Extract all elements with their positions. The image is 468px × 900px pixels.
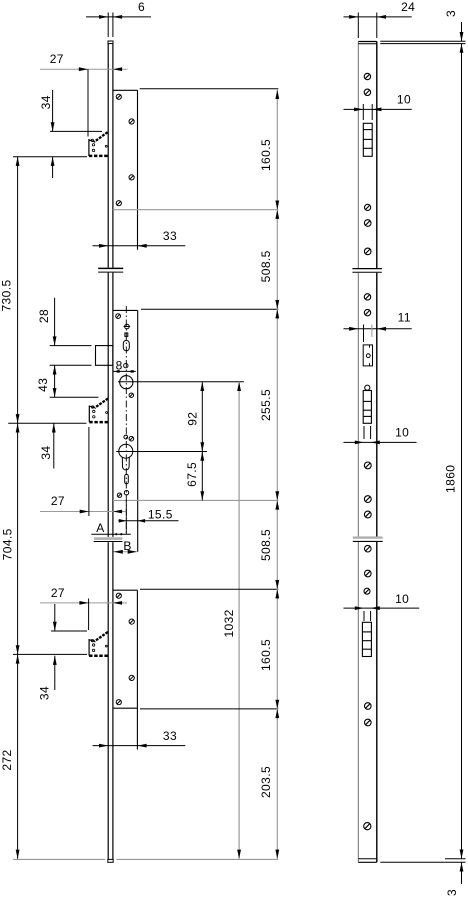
dimension 6 line [86,16,151,18]
screw S3 [129,175,134,180]
follower hub circle [120,376,133,389]
dimension 11 line [344,328,412,330]
dimension 27 mid line [40,511,127,513]
hook H1 bottom extension line [13,156,87,158]
svg-text:10: 10 [397,92,411,106]
faceplate rail (front view) [108,41,113,859]
channel profile right edge [376,42,378,863]
dimension 1860 line [461,44,463,859]
dimension 3 top stems [461,22,463,41]
hook H2 bottom extension line [8,422,86,424]
hook bolt H2 top extension line [50,396,99,398]
lower circle [124,491,128,495]
dimension 33 top line [93,245,186,247]
lock case C3 outline [113,590,137,749]
svg-text:508.5: 508.5 [259,250,273,282]
inner dim 8 line [113,370,136,372]
hook H3 bottom extension line [13,653,87,655]
dimension B line [114,551,137,553]
case C2 top extension line [141,308,278,310]
channel splice joint 1 [352,268,382,270]
svg-text:272: 272 [0,749,14,770]
dimension 24 line [344,16,412,18]
screw S7 [129,436,134,441]
svg-text:43: 43 [36,378,50,392]
small square port [125,333,128,337]
svg-text:704.5: 704.5 [1,528,15,560]
svg-text:10: 10 [395,592,409,606]
hook ladder slot T2 [363,391,371,424]
dimension 10 mid extension ticks [363,426,365,439]
svg-text:508.5: 508.5 [259,529,273,561]
channel screw holes [364,73,372,830]
channel profile left edge (side view) [357,42,359,863]
dimension 34 top stems and arrows [52,90,54,131]
dimension 28 stem and arrow [54,298,56,346]
case C1 top extension line [140,88,279,90]
cylinder retainer slot [363,345,372,366]
svg-text:1860: 1860 [444,465,458,493]
hook bolt H3 top extension line [51,630,87,632]
hook ladder slot T3 [362,622,371,656]
svg-text:15.5: 15.5 [148,508,173,522]
dimension 1032 line [238,382,240,859]
rail top end cap [108,41,113,44]
dimension 15.5 line [118,520,178,522]
lock case C1 [113,90,138,249]
svg-text:6: 6 [138,0,145,14]
svg-text:34: 34 [38,686,52,700]
screw S2 [129,119,134,124]
svg-text:33: 33 [163,729,177,743]
screw S4 [116,201,121,206]
euro cylinder profile [119,444,133,458]
latch bottom extension line [50,364,92,366]
case C3 bottom extension line [140,708,278,710]
hook ladder slot T2 pilot circle [365,385,370,390]
dimension 43 line [54,365,56,397]
node A leader line [91,533,131,535]
lock case C2 outline [113,310,138,551]
screw S1 [116,94,121,99]
rail splice joint 2 (grey plate) [94,537,122,540]
svg-text:34: 34 [39,95,53,109]
screw S5 [116,314,121,319]
hook bolt H2 [89,398,108,422]
svg-text:A: A [96,521,104,535]
follower axis extension line [118,381,244,383]
screw S9 [116,593,121,598]
svg-text:160.5: 160.5 [259,639,273,671]
dimension 10 mid line [344,441,417,443]
channel bottom cap [358,858,377,860]
dimension 27 mid extension line [88,427,90,516]
dimension 67.5 line [201,452,203,501]
cylinder axis extension line [116,451,207,453]
lower obround slot [125,474,129,484]
hook bolt H1 [89,132,108,156]
circle pair above cylinder [124,435,128,439]
svg-text:27: 27 [51,494,65,508]
svg-text:203.5: 203.5 [259,766,273,798]
svg-text:67.5: 67.5 [185,462,199,487]
svg-text:24: 24 [401,0,415,14]
spindle pilot circle [124,324,131,329]
inner circle at node 8 [124,363,128,367]
svg-text:92: 92 [185,412,199,426]
svg-text:3: 3 [444,10,458,17]
latch bolt [96,346,113,366]
case C3 top extension line [140,588,278,590]
svg-text:34: 34 [39,446,53,460]
bottom cap extension lines [445,858,466,860]
dimension 10 top extension ticks [362,104,364,120]
svg-text:730.5: 730.5 [0,279,14,311]
dimension 27 bottom line [40,602,127,604]
svg-text:1032: 1032 [222,609,236,637]
channel top cap [358,41,377,43]
dimension 3 bottom stem [461,862,463,884]
svg-text:28: 28 [37,309,51,323]
dimension 27 top extension line [87,69,89,136]
screw S6 [129,393,133,397]
svg-text:160.5: 160.5 [259,139,273,171]
channel splice joint 2 [353,536,383,538]
bottom extension line (grey) [13,858,105,860]
svg-text:11: 11 [398,310,411,324]
dimension 10 bottom line [344,607,420,609]
left dimension chain line [17,157,19,859]
dimension 10 bottom extension ticks [363,611,365,621]
hook bolt H3 [89,632,108,656]
dimension 34 mid stem and arrow [53,423,55,468]
screw S8 [117,493,121,497]
dimension 27 top line [40,68,128,70]
case C1 bottom line (grey) [113,209,278,211]
dimension 92 line [201,382,203,452]
dimension 11 extension ticks [363,325,365,343]
dimension 10 top line [344,108,412,110]
case C2 bottom line (grey) [113,499,278,501]
top cap extension lines [380,40,465,42]
rail bottom end cap [108,859,113,862]
svg-text:27: 27 [51,586,65,600]
screw S10 [129,619,134,624]
dimension 33 bottom line [93,745,186,747]
hook bolt H1 top extension line [50,130,102,132]
dimension 27 bottom extension line [88,599,90,631]
case C2 centreline [125,306,127,534]
svg-text:33: 33 [163,229,177,243]
svg-text:255.5: 255.5 [259,389,273,421]
screw S11 [129,675,134,680]
svg-text:10: 10 [395,425,409,439]
dimension 34 bottom stems and arrows [54,604,56,631]
svg-text:27: 27 [50,52,64,66]
screw S12 [116,700,121,705]
svg-text:3: 3 [445,889,459,896]
dimension 6 extension lines [107,13,109,38]
dimension 24 extension lines [357,13,359,39]
follower slot (obround) [123,340,129,350]
hook ladder slot T1 [363,123,372,156]
rail splice joint 1 [98,267,123,269]
latch top extension line [50,345,92,347]
right dimension chain line [276,90,278,859]
case C2 right extension below [125,500,127,534]
